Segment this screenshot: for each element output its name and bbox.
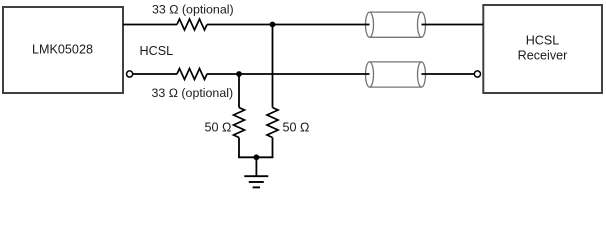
svg-text:50 Ω: 50 Ω — [205, 121, 232, 135]
wire: common node to ground — [255, 157, 257, 176]
svg-text:Receiver: Receiver — [518, 48, 568, 62]
resistor 33 ohm series (N line) — [177, 69, 207, 80]
junction dot at common node — [254, 154, 260, 160]
resistor 50 ohm termination (P side, vertical) — [267, 108, 278, 138]
wire P: LMK output to series resistor — [123, 24, 177, 26]
svg-text:HCSL: HCSL — [526, 33, 560, 47]
device LMK05028 box — [3, 7, 123, 93]
wire N: LMK output to series resistor — [133, 73, 178, 75]
wire: N resistor bottom to common node — [238, 138, 240, 158]
wire N: resistor to transmission line T2 (through junction) — [207, 73, 370, 75]
svg-text:33 Ω (optional): 33 Ω (optional) — [152, 86, 234, 100]
junction dot on N wire — [236, 71, 242, 77]
wire P: resistor to transmission line T1 (through junction) — [207, 24, 370, 26]
svg-text:HCSL: HCSL — [140, 44, 174, 58]
resistor 50 ohm termination (N side, vertical) — [234, 108, 245, 138]
wire P: T1 to receiver — [422, 24, 484, 26]
svg-text:50 Ω: 50 Ω — [283, 121, 310, 135]
wire: P junction down to 50 ohm resistor (crosses N wire, no connect) — [272, 25, 274, 108]
inverting input bubble on receiver N pin — [474, 71, 480, 77]
resistor 33 ohm series (P line) — [177, 19, 207, 30]
svg-text:LMK05028: LMK05028 — [32, 43, 93, 57]
inverting output bubble on LMK N pin — [127, 71, 133, 77]
wire: common bottom node joining both resistors — [238, 156, 273, 158]
svg-text:33 Ω (optional): 33 Ω (optional) — [152, 3, 234, 17]
transmission line T2 (N line cylinder) — [366, 62, 426, 87]
device HCSL Receiver box — [483, 5, 602, 93]
wire: N junction down to 50 ohm resistor — [238, 74, 240, 108]
wire: P resistor bottom to common node — [272, 138, 274, 158]
ground symbol — [244, 176, 268, 187]
transmission line T1 (P line cylinder) — [366, 12, 426, 37]
wire N: T2 to receiver bubble — [422, 73, 475, 75]
junction dot on P wire — [270, 22, 276, 28]
